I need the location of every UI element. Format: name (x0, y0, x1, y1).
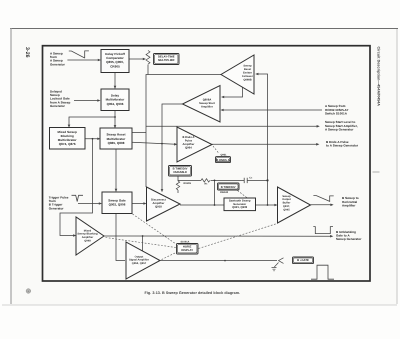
box HORIZ DISPLAY switch (177, 241, 199, 254)
dashed blanking amp to horiz display switch (106, 238, 177, 248)
page paper (11, 29, 397, 306)
svg-text:Amplifier: Amplifier (201, 106, 213, 109)
waveform trigger pulse (72, 195, 84, 201)
svg-text:Generator: Generator (50, 62, 66, 66)
wire EF bottom output to Q908A (222, 85, 242, 97)
svg-text:Q964: Q964 (185, 147, 192, 150)
box sweep gate (102, 192, 132, 214)
registered trademark mark (26, 289, 31, 294)
svg-text:Q902, Q906: Q902, Q906 (109, 203, 126, 207)
wire mixed blocking MV down to blanking amplifier (60, 139, 93, 236)
wire sweep reset MV to sweep gate (115, 149, 117, 191)
wire B gate output line (161, 260, 278, 262)
connector B gate output (274, 258, 283, 267)
junction delay MV output node (114, 116, 116, 118)
wire B ends A pulse output (212, 143, 318, 145)
junction sawtooth input node (214, 204, 216, 206)
svg-text:C t: C t (249, 176, 252, 179)
svg-text:Q904, Q906: Q904, Q906 (107, 102, 124, 106)
svg-text:B TIME/DIV: B TIME/DIV (221, 186, 236, 189)
wire sweep gate down to output signal amp (116, 214, 125, 261)
dashed mechanical links (106, 146, 278, 260)
svg-text:Q921, Q935: Q921, Q935 (232, 206, 247, 209)
node label delayed sweep lockout (50, 90, 70, 108)
wire unblanking tap down into output amp (142, 236, 144, 251)
page left edge (10, 28, 12, 304)
svg-text:Q865, Q898: Q865, Q898 (108, 141, 125, 145)
dashed horiz display switch to sweep output buffer (199, 224, 278, 249)
svg-text:DISPLAY: DISPLAY (181, 249, 193, 252)
wire timing line right segment (247, 179, 267, 181)
wire Q908A apex output down to disconnect amp (162, 104, 183, 191)
svg-text:SW940: SW940 (220, 191, 229, 194)
svg-text:Q918: Q918 (155, 205, 162, 208)
wire feedback vertical from sweep output (257, 74, 268, 205)
svg-text:Sweep Generator: Sweep Generator (336, 237, 362, 241)
node label B unblanking gate (336, 230, 362, 241)
svg-text:+: + (27, 289, 29, 293)
dashed output amp to horiz display switch (162, 253, 177, 260)
svg-text:to A Sweep Generator: to A Sweep Generator (326, 143, 359, 147)
op-amp sweep output buffer (278, 187, 311, 223)
svg-text:R930S: R930S (184, 182, 192, 185)
wire trigger pulse input (78, 203, 101, 205)
node label trigger pulse input (49, 196, 69, 211)
node label sweep start level (325, 120, 358, 131)
junction gate line node (224, 260, 226, 262)
wire delayed sweep lockout input (74, 100, 99, 102)
box delay pickoff comparator (101, 50, 129, 73)
wire timing line mid segment (211, 179, 245, 181)
junction timing node right (266, 179, 268, 181)
wire R930S stub (177, 176, 179, 193)
wire disconnect amp to sawtooth generator (180, 204, 224, 206)
svg-text:Switch S1001A: Switch S1001A (325, 111, 348, 115)
wire delay pickoff to delay-time multiplier pot (129, 58, 143, 60)
box B ENDS A connector label (216, 154, 231, 163)
wire sweep start level output (146, 125, 318, 127)
waveform A sweep ramp (69, 51, 89, 58)
page bottom edge (2, 304, 397, 306)
svg-text:Q953, Q957: Q953, Q957 (132, 262, 147, 265)
dashed B ends A apex to Q961 label (213, 146, 219, 154)
svg-text:Q948: Q948 (84, 240, 91, 243)
wire sweep output buffer to horizontal amp (311, 204, 333, 206)
node label A sweep from horiz display (325, 104, 349, 115)
page right edge (396, 29, 398, 304)
wire sweep reset MV to B ends A amplifier (132, 142, 176, 144)
svg-text:B +GATE: B +GATE (297, 259, 309, 262)
resistor Rt (201, 179, 210, 186)
svg-text:A Sweep Generator: A Sweep Generator (325, 127, 354, 131)
wire delay pickoff to delay multivibrator (114, 73, 116, 88)
svg-text:Fig. 3-13. B Sweep Generator d: Fig. 3-13. B Sweep Generator detailed bl… (145, 291, 241, 295)
node label B sweep to horizontal amplifier (342, 196, 359, 207)
svg-text:MULTIPLIER: MULTIPLIER (158, 59, 174, 62)
svg-text:Circuit Description—454A/R454A: Circuit Description—454A/R454A (376, 47, 380, 107)
waveform B sweep sawtooth (313, 196, 333, 202)
dashed B time/div switch to sawtooth generator (238, 191, 248, 198)
wire tap into sweep reset MV (132, 132, 146, 134)
arrowheads (68, 58, 334, 238)
dashed sweep gate to horiz display switch (133, 214, 177, 244)
svg-text:3-26: 3-26 (24, 47, 30, 58)
stray scan dash artifact (373, 171, 380, 173)
op-amp disconnect amplifier (147, 187, 181, 221)
op-amp sweep reset emitter follower (221, 55, 254, 94)
ground chassis symbol (272, 268, 277, 271)
op-amp B ends A pulse amplifier (177, 127, 212, 162)
junction unblanking line node (142, 235, 144, 237)
wire A sweep from horiz display (222, 109, 322, 111)
wire mixed blocking MV to sweep reset MV (85, 138, 99, 140)
capacitor Ct (244, 176, 252, 183)
svg-text:Generator: Generator (50, 104, 66, 108)
svg-text:R t: R t (205, 183, 208, 186)
op-amp output signal amplifier (126, 242, 160, 279)
node label B ends A pulse (326, 140, 359, 148)
svg-text:Q898B: Q898B (243, 78, 251, 81)
box B +GATE connector label (293, 257, 314, 264)
svg-text:Q874, Q876: Q874, Q876 (59, 142, 76, 146)
node label A sweep input (50, 52, 66, 67)
op-amp Q908A sweep start amplifier (183, 86, 221, 123)
diagram outer border (43, 46, 371, 281)
waveform unblanking gate (313, 227, 333, 234)
waveform B plus gate (311, 265, 334, 279)
wire B unblanking gate line (104, 235, 332, 237)
svg-text:Q945: Q945 (283, 208, 290, 211)
svg-text:Generator: Generator (49, 206, 65, 210)
junction B ends A input node (161, 143, 163, 145)
box B TIME/DIV VARIABLE control (169, 166, 192, 177)
junction buffer input node (267, 204, 269, 206)
svg-text:B ENDS A: B ENDS A (216, 159, 229, 162)
wire timing line left segment (178, 179, 201, 181)
svg-text:VARIABLE: VARIABLE (173, 171, 187, 174)
box DELAY-TIME MULTIPLIER control (154, 54, 180, 65)
wire sawtooth generator to sweep output buffer (256, 204, 277, 206)
wire EF apex output left and down (146, 75, 221, 188)
resistor pot delay-time multiplier (146, 51, 150, 65)
wire delay MV output junction to both MVs (69, 111, 115, 128)
svg-text:CR905: CR905 (110, 64, 120, 68)
svg-text:Amplifier: Amplifier (342, 203, 356, 207)
box delay multivibrator (101, 89, 129, 111)
wire sweep gate to disconnect amp (132, 203, 145, 205)
op-amp mixed sweep blanking amplifier (76, 217, 104, 255)
box sawtooth sweep generator (224, 198, 256, 211)
resistor R930S (176, 181, 191, 190)
page top edge (10, 28, 398, 30)
wire timing node vertical (214, 180, 216, 205)
box B TIME/DIV switch (218, 183, 240, 194)
wire pot bottom stub (147, 65, 149, 75)
junction blocking MV output node (92, 138, 94, 140)
box mixed sweep blocking multivibrator (50, 128, 86, 150)
box sweep reset multivibrator (100, 128, 132, 149)
wire A sweep input to delay pickoff (67, 59, 99, 61)
junction timing node left (214, 180, 216, 182)
